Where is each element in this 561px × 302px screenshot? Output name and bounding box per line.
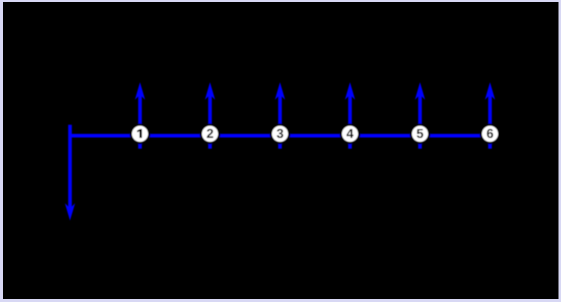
label 3 <box>277 129 283 138</box>
node 5 circle <box>411 125 429 143</box>
wire left vertical drop at source <box>68 125 72 210</box>
arrowhead up node 5 <box>415 82 425 100</box>
node 3 circle <box>271 125 289 143</box>
arrowhead up node 4 <box>345 82 355 100</box>
arrowhead down (source current) <box>65 203 75 220</box>
label 2 <box>207 129 213 138</box>
wire arrow shaft node 6 <box>488 89 492 149</box>
wire arrow shaft node 4 <box>348 89 352 149</box>
label 5 <box>417 129 423 138</box>
label 1 <box>137 129 142 138</box>
arrowhead up node 2 <box>205 82 215 100</box>
label 4 <box>347 129 354 138</box>
arrowhead up node 1 <box>135 82 145 100</box>
node 2 circle <box>201 125 219 143</box>
wire arrow shaft node 2 <box>208 89 212 149</box>
node 1 circle <box>131 125 149 143</box>
wire arrow shaft node 3 <box>278 89 282 149</box>
arrowhead up node 6 <box>485 82 495 100</box>
node 4 circle <box>341 125 359 143</box>
wire W0 horizontal bus from source to node 6 <box>70 134 490 138</box>
wire arrow shaft node 1 <box>138 89 142 149</box>
node 6 circle <box>481 125 499 143</box>
wire arrow shaft node 5 <box>418 89 422 149</box>
label 6 <box>487 129 493 138</box>
arrowhead up node 3 <box>275 82 285 100</box>
